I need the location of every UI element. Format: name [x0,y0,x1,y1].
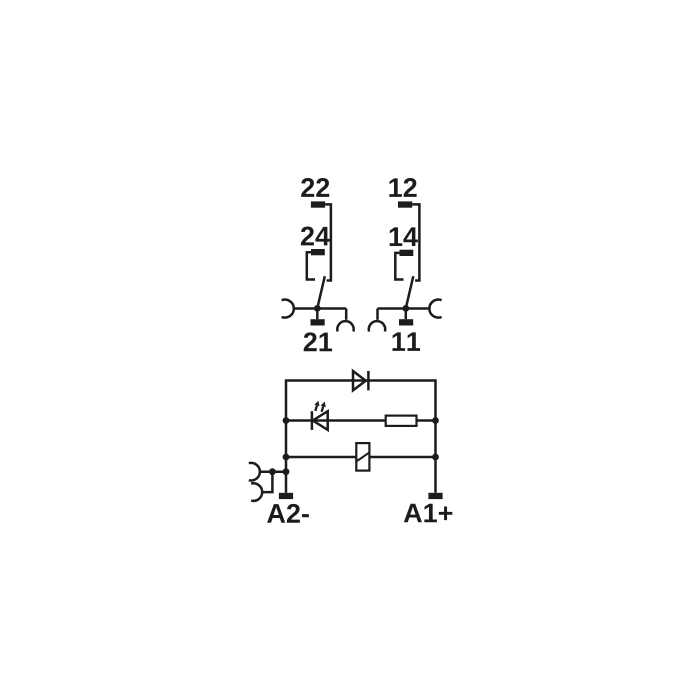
wire from terminal 24 to NO fixed contact [307,252,315,279]
top branch wire with freewheeling diode [286,381,436,493]
wire to bridge arch contact 1 [345,309,348,320]
coil diagonal [357,452,369,461]
socket arc left of contact 1 [282,300,294,318]
switch lever contact 2 [406,276,414,308]
label 24 [301,227,330,246]
label A2- [267,504,309,523]
wire from terminal 22 to NC fixed contact [325,204,331,280]
label 22 [301,178,329,197]
junction left bus coil branch [283,454,290,461]
wire junction 1 down to terminal 21 [316,309,319,320]
bridge junction dot [269,468,276,475]
junction left bus LED branch [283,417,290,424]
terminal 22 [311,201,325,207]
common wire contact 2 [378,307,430,310]
wire to bridge arch contact 2 [376,309,379,320]
junction contact 1 [314,305,321,312]
resistor R1 [386,416,417,426]
junction right bus coil branch [432,454,439,461]
LED arrows [315,406,317,411]
socket arc right of contact 2 [429,300,441,318]
terminal 21 [311,319,325,325]
bridge socket arc upper [249,463,260,481]
terminal 24 [311,249,325,255]
wire junction 2 down to terminal 11 [405,309,408,320]
terminal 12 [398,201,412,207]
common wire contact 1 [294,307,346,310]
junction A2 bus bridge [283,468,290,475]
bridge wire upper at A2 [260,470,286,473]
LED triangle [313,411,328,430]
middle branch wire [286,419,436,422]
terminal 11 [399,319,413,325]
bridge socket arc lower [251,483,262,501]
relay coil K1 [356,443,369,471]
label 14 [390,227,418,246]
junction right bus LED branch [432,417,439,424]
bridge arch contact 1 [337,321,353,331]
junction contact 2 [402,305,409,312]
label A1+ [404,504,453,523]
bridge wire lower at A2 [263,472,273,492]
wire from terminal 14 to NO fixed contact [395,253,403,280]
LED cathode bar [311,411,314,430]
bottom branch wire [286,456,436,459]
terminal A2 [279,493,293,499]
bridge arch contact 2 [369,321,385,331]
diode cathode bar [367,371,370,390]
label 11 [392,332,420,351]
label 21 [304,332,332,351]
label 12 [389,178,416,197]
terminal 14 [400,250,414,256]
freewheeling diode V1 [353,371,366,390]
switch lever contact 1 [317,276,325,308]
terminal A1 [428,493,442,499]
wire from terminal 12 to NC fixed contact [412,204,419,280]
